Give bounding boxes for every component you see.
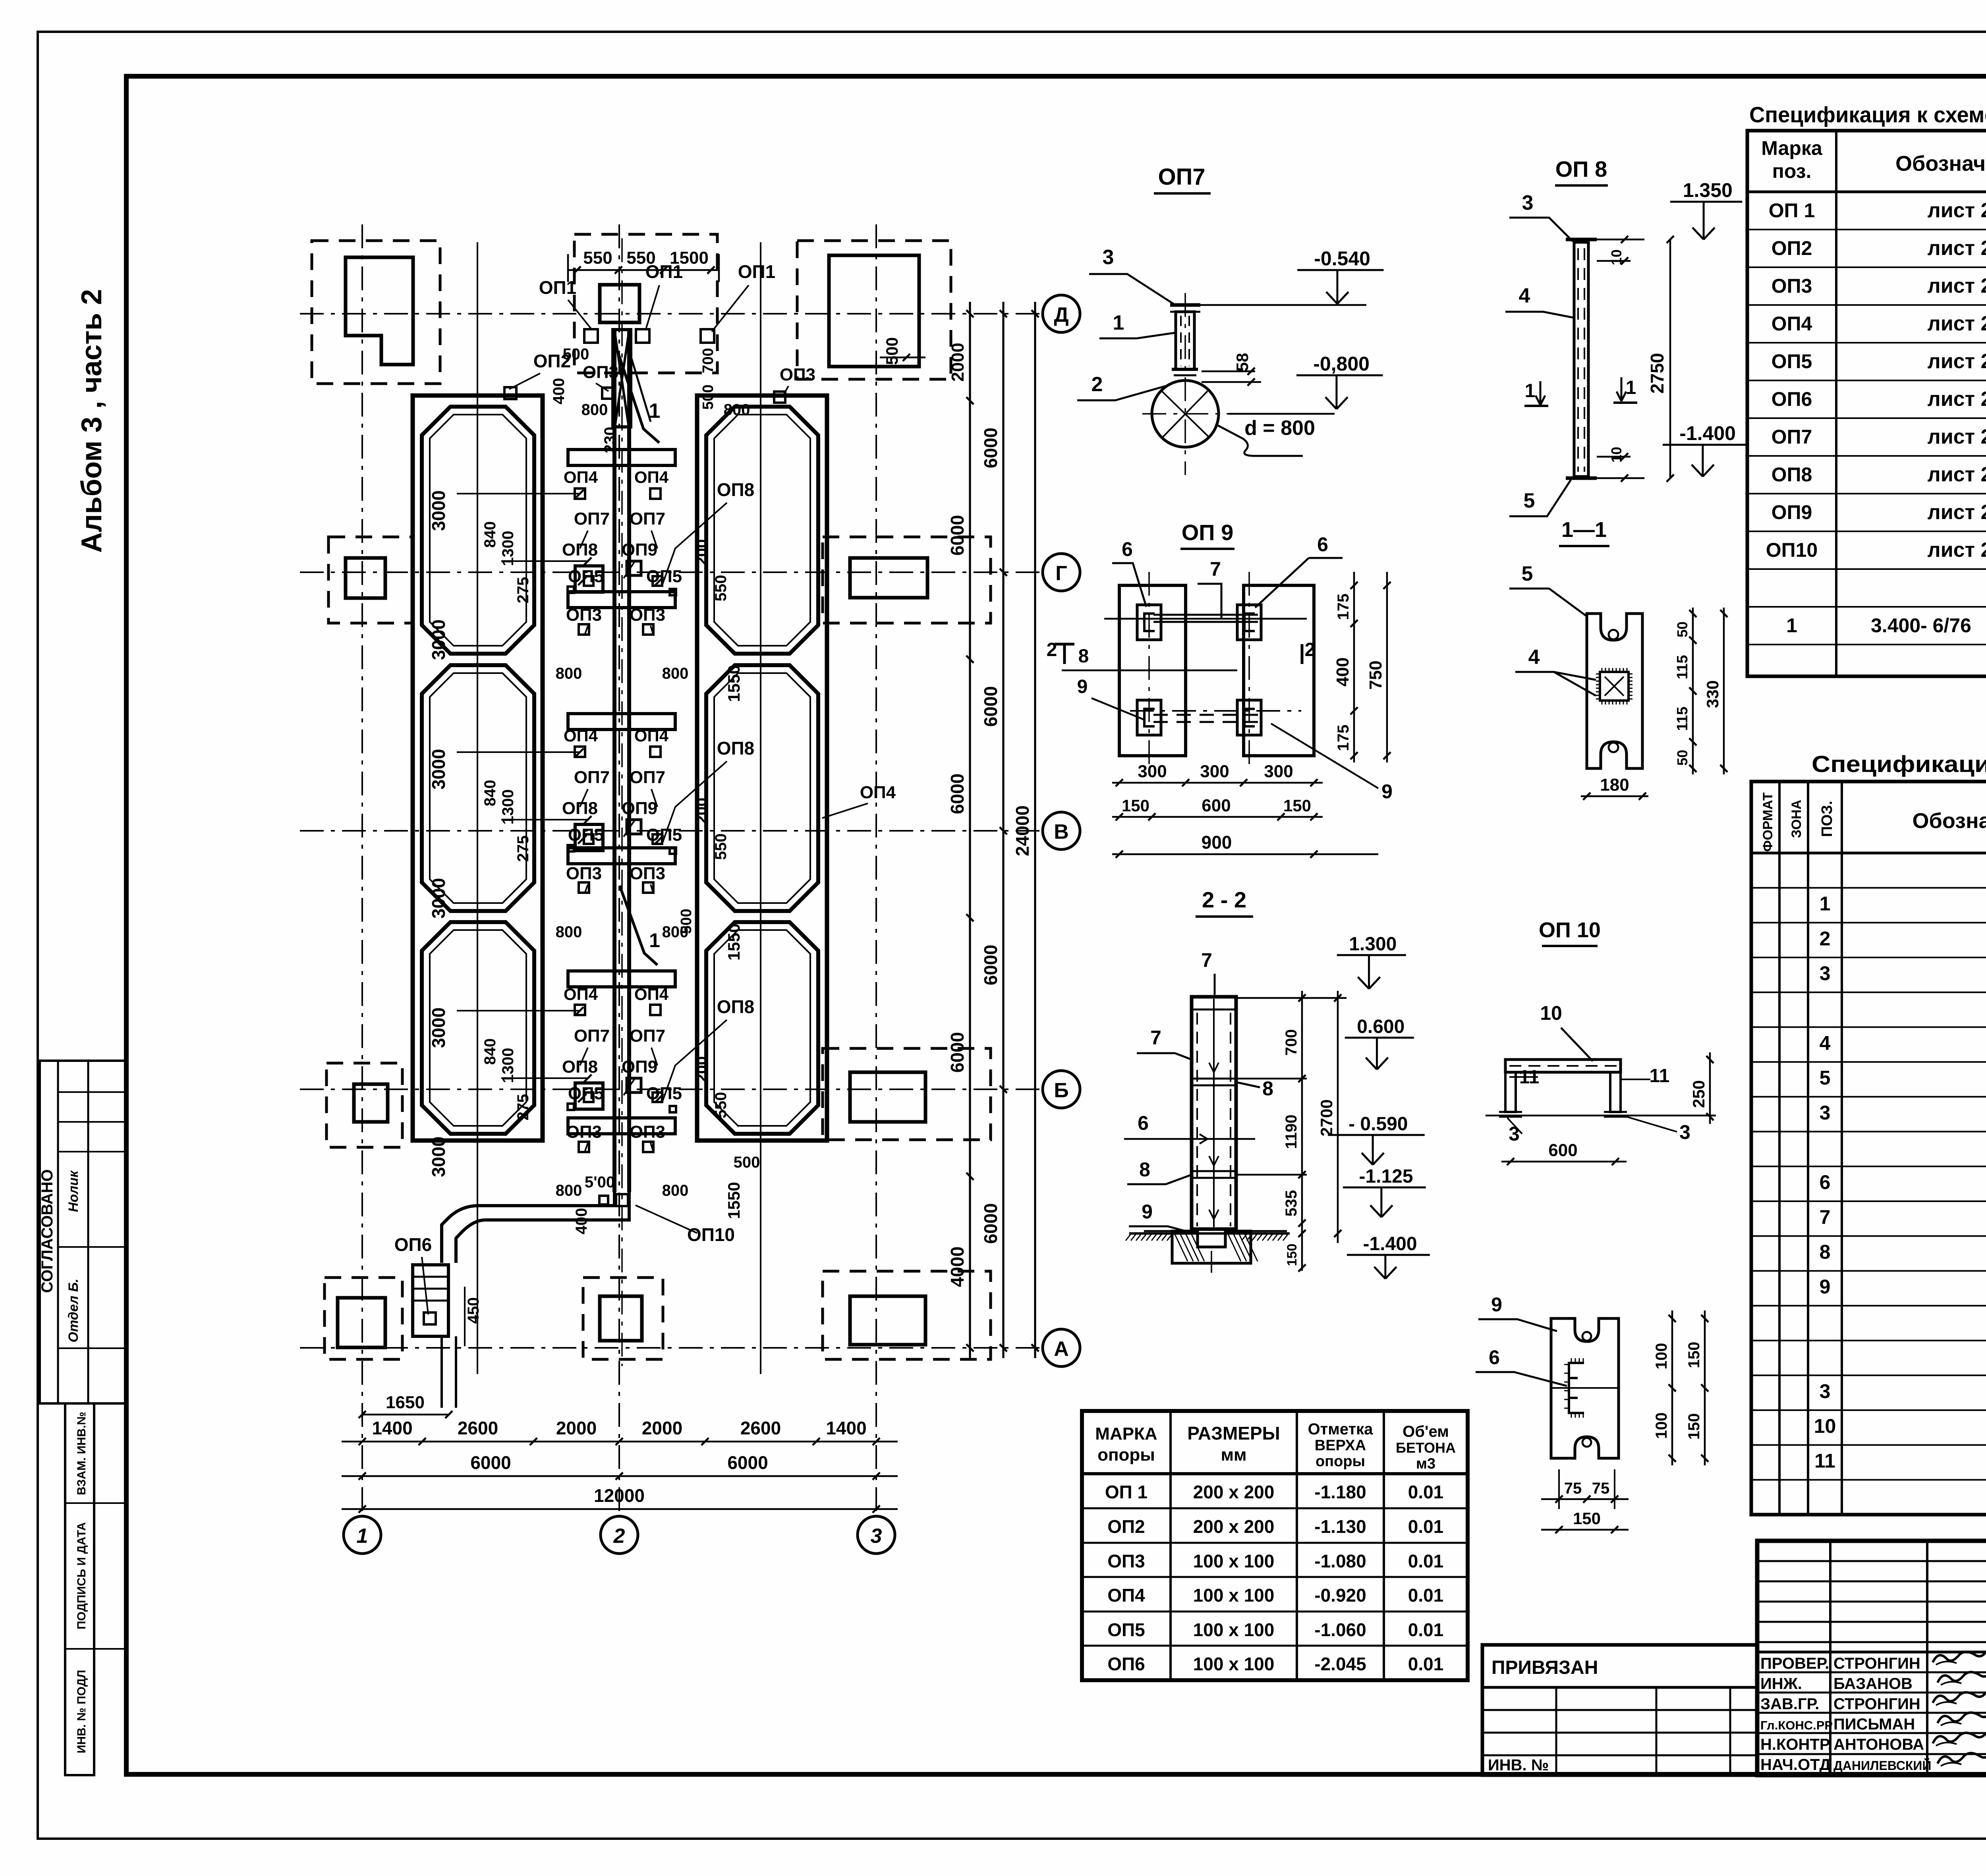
detail MN dims xyxy=(1692,608,1694,774)
footing boxes row G xyxy=(328,537,413,623)
svg-text:100 х 100: 100 х 100 xyxy=(1193,1585,1275,1606)
svg-text:d = 800: d = 800 xyxy=(1244,417,1315,440)
svg-text:ОП8: ОП8 xyxy=(562,799,598,818)
svg-text:3000: 3000 xyxy=(428,490,449,531)
detail bottom plate dims xyxy=(1671,1310,1673,1465)
detail bottom plate 9-6 xyxy=(1551,1318,1619,1458)
svg-text:ПРОВЕР.: ПРОВЕР. xyxy=(1760,1655,1829,1672)
svg-text:840: 840 xyxy=(481,780,499,807)
svg-text:6000: 6000 xyxy=(947,1032,968,1073)
channel top brace xyxy=(613,330,631,427)
svg-text:8: 8 xyxy=(1262,1077,1273,1100)
svg-text:ОП4: ОП4 xyxy=(1772,313,1812,335)
svg-text:СОГЛАСОВАНО: СОГЛАСОВАНО xyxy=(39,1169,56,1293)
dim 1650 xyxy=(362,1414,449,1416)
svg-text:840: 840 xyxy=(481,521,499,548)
svg-text:275: 275 xyxy=(514,836,532,862)
svg-text:2000: 2000 xyxy=(556,1418,597,1438)
svg-text:550: 550 xyxy=(712,575,730,602)
svg-text:лист 29: лист 29 xyxy=(1928,350,1986,373)
support marks table xyxy=(1082,1411,1468,1680)
svg-text:1: 1 xyxy=(357,1525,368,1548)
tank left xyxy=(422,665,534,911)
svg-text:-0.540: -0.540 xyxy=(1314,247,1370,270)
svg-text:75: 75 xyxy=(1592,1480,1610,1497)
svg-text:1550: 1550 xyxy=(724,923,743,960)
svg-text:6000: 6000 xyxy=(947,515,968,556)
svg-text:700: 700 xyxy=(1283,1029,1300,1056)
svg-text:СТРОНГИН: СТРОНГИН xyxy=(1833,1695,1920,1713)
svg-text:600: 600 xyxy=(1202,796,1231,815)
svg-text:50: 50 xyxy=(1674,621,1690,637)
svg-text:5: 5 xyxy=(1522,562,1533,585)
detail OP10 dims xyxy=(1709,1052,1711,1124)
svg-text:ОП2: ОП2 xyxy=(1772,237,1812,259)
svg-text:6000: 6000 xyxy=(980,945,1001,985)
svg-text:3000: 3000 xyxy=(428,620,449,660)
svg-text:0.01: 0.01 xyxy=(1408,1551,1444,1571)
svg-text:200 х 200: 200 х 200 xyxy=(1193,1516,1275,1537)
svg-text:8: 8 xyxy=(1139,1158,1150,1181)
svg-text:1: 1 xyxy=(1525,380,1536,401)
svg-text:Гл.КОНС.РР: Гл.КОНС.РР xyxy=(1760,1718,1833,1732)
svg-text:лист 29: лист 29 xyxy=(1928,312,1986,335)
svg-text:ВЕРХА: ВЕРХА xyxy=(1315,1437,1366,1454)
tank left xyxy=(422,922,534,1134)
op10 marker xyxy=(616,1194,628,1206)
right basin outer wall xyxy=(697,396,827,1141)
svg-text:ОП3: ОП3 xyxy=(630,605,665,625)
svg-text:500: 500 xyxy=(563,345,589,363)
svg-text:2750: 2750 xyxy=(1647,353,1667,394)
svg-text:750: 750 xyxy=(1366,660,1385,689)
tank block centerlines xyxy=(477,242,478,1374)
svg-text:275: 275 xyxy=(514,1094,532,1121)
svg-text:9: 9 xyxy=(1142,1200,1153,1223)
svg-text:Спецификация к схеме располож: Спецификация к схеме расположения канало… xyxy=(1749,102,1986,127)
svg-text:2600: 2600 xyxy=(458,1418,498,1438)
central channel walls xyxy=(612,329,616,1192)
svg-text:7: 7 xyxy=(1210,558,1221,580)
svg-text:10: 10 xyxy=(1814,1415,1836,1437)
svg-text:24000: 24000 xyxy=(1012,805,1033,856)
svg-text:ОП3: ОП3 xyxy=(780,365,815,384)
svg-text:6: 6 xyxy=(1138,1112,1149,1134)
svg-text:3: 3 xyxy=(1679,1121,1690,1143)
svg-text:1: 1 xyxy=(1786,614,1797,637)
svg-text:700: 700 xyxy=(700,348,717,373)
svg-text:0.01: 0.01 xyxy=(1408,1516,1444,1537)
svg-text:250: 250 xyxy=(1689,1080,1708,1108)
svg-text:800: 800 xyxy=(556,1182,582,1199)
plan bottom dimension chain 1 xyxy=(342,1441,898,1443)
plan bottom dimension chain 3 xyxy=(342,1508,898,1510)
svg-text:ОП1: ОП1 xyxy=(539,277,576,298)
svg-text:ЗАВ.ГР.: ЗАВ.ГР. xyxy=(1760,1695,1819,1713)
detail MN plate weld square xyxy=(1600,672,1629,701)
section 2-2 internal bars xyxy=(1193,1078,1235,1080)
column top-right xyxy=(829,255,919,367)
channel cross flanges xyxy=(568,450,675,465)
axis grid vertical lines xyxy=(361,224,363,1515)
svg-text:150: 150 xyxy=(1573,1509,1601,1528)
svg-text:7: 7 xyxy=(1820,1206,1831,1228)
svg-text:400: 400 xyxy=(573,1208,590,1235)
pipe run to OP6 xyxy=(442,1192,614,1263)
svg-text:1550: 1550 xyxy=(724,665,743,702)
svg-text:лист 29: лист 29 xyxy=(1928,199,1986,222)
svg-text:-1.400: -1.400 xyxy=(1363,1233,1417,1255)
svg-text:6000: 6000 xyxy=(470,1452,511,1473)
svg-text:ОП9: ОП9 xyxy=(622,540,657,560)
svg-text:500: 500 xyxy=(734,1154,760,1171)
svg-text:ОП3: ОП3 xyxy=(566,864,602,883)
svg-text:А: А xyxy=(1054,1338,1069,1361)
svg-text:4: 4 xyxy=(1820,1032,1831,1054)
svg-text:АНТОНОВА: АНТОНОВА xyxy=(1833,1736,1924,1753)
svg-text:РАЗМЕРЫ: РАЗМЕРЫ xyxy=(1187,1423,1280,1444)
svg-text:поз.: поз. xyxy=(1772,160,1812,182)
svg-text:4: 4 xyxy=(1528,646,1540,669)
svg-text:3: 3 xyxy=(1820,1380,1831,1402)
svg-text:- 0.590: - 0.590 xyxy=(1348,1114,1408,1135)
svg-text:3000: 3000 xyxy=(428,749,449,789)
svg-text:9: 9 xyxy=(1820,1276,1831,1298)
svg-text:лист 29: лист 29 xyxy=(1928,538,1986,562)
svg-text:ОП5: ОП5 xyxy=(646,567,682,586)
svg-text:6000: 6000 xyxy=(980,428,1001,468)
cross ticks xyxy=(578,577,586,585)
detail OP8 dim 10 top xyxy=(1597,239,1644,241)
svg-text:ОП7: ОП7 xyxy=(630,509,665,529)
svg-text:-1.125: -1.125 xyxy=(1359,1166,1413,1187)
svg-text:100 х 100: 100 х 100 xyxy=(1193,1619,1275,1640)
svg-text:9: 9 xyxy=(1491,1293,1502,1316)
section 2-2 foundation xyxy=(1172,1231,1251,1263)
svg-text:800: 800 xyxy=(556,665,582,682)
svg-text:ОП5: ОП5 xyxy=(1107,1619,1145,1640)
svg-text:1: 1 xyxy=(649,929,660,952)
svg-text:ОП3: ОП3 xyxy=(630,1122,665,1142)
svg-text:6000: 6000 xyxy=(980,686,1001,727)
svg-text:3: 3 xyxy=(1820,962,1831,984)
svg-text:Д: Д xyxy=(1054,303,1068,326)
svg-text:7: 7 xyxy=(1150,1027,1161,1049)
svg-text:2: 2 xyxy=(1305,639,1316,660)
svg-text:1: 1 xyxy=(1626,377,1636,398)
svg-text:800: 800 xyxy=(582,401,608,419)
svg-text:550: 550 xyxy=(712,834,730,860)
svg-text:840: 840 xyxy=(481,1038,499,1065)
svg-text:ОП4: ОП4 xyxy=(564,985,598,1004)
svg-text:1.350: 1.350 xyxy=(1683,179,1733,201)
svg-text:ОП10: ОП10 xyxy=(1766,539,1818,561)
svg-text:2600: 2600 xyxy=(740,1418,781,1438)
svg-text:ОП 1: ОП 1 xyxy=(1769,199,1815,222)
tank left xyxy=(422,407,534,654)
svg-text:58: 58 xyxy=(1233,353,1252,372)
svg-text:10: 10 xyxy=(1540,1002,1562,1024)
svg-text:2: 2 xyxy=(1820,927,1831,950)
svg-text:300: 300 xyxy=(1264,762,1293,781)
svg-text:1400: 1400 xyxy=(372,1418,412,1438)
svg-text:лист 29: лист 29 xyxy=(1928,501,1986,524)
svg-text:Обозначение: Обозначение xyxy=(1912,809,1986,833)
svg-text:-0.920: -0.920 xyxy=(1314,1585,1366,1606)
svg-text:БЕТОНА: БЕТОНА xyxy=(1396,1440,1456,1456)
svg-text:ФОРМАТ: ФОРМАТ xyxy=(1760,792,1775,852)
svg-text:2: 2 xyxy=(613,1525,625,1548)
support assemblies at axes xyxy=(575,566,603,592)
svg-text:800: 800 xyxy=(662,665,689,682)
svg-text:-1.130: -1.130 xyxy=(1314,1516,1366,1537)
section 2-2 ground xyxy=(1129,1232,1290,1235)
svg-text:2: 2 xyxy=(1092,373,1103,396)
tank right xyxy=(706,407,818,654)
detail OP8 elevation 1.350 xyxy=(1670,201,1742,203)
svg-text:лист 29: лист 29 xyxy=(1928,274,1986,297)
column footing dashed boxes top row xyxy=(312,241,440,384)
svg-text:6000: 6000 xyxy=(947,774,968,814)
svg-text:Марка: Марка xyxy=(1761,137,1823,159)
svg-text:ОП5: ОП5 xyxy=(646,825,682,845)
svg-text:3.400- 6/76: 3.400- 6/76 xyxy=(1871,614,1971,637)
svg-text:550: 550 xyxy=(583,248,612,268)
svg-text:опоры: опоры xyxy=(1097,1445,1155,1465)
svg-text:ОП8: ОП8 xyxy=(717,996,754,1017)
detail OP7 elevation -0.800 xyxy=(1296,374,1383,376)
svg-text:Об'ем: Об'ем xyxy=(1403,1423,1449,1440)
svg-text:ИНЖ.: ИНЖ. xyxy=(1760,1675,1802,1693)
svg-text:150: 150 xyxy=(1122,796,1149,815)
svg-text:ОП5: ОП5 xyxy=(1772,350,1812,372)
svg-text:ОП4: ОП4 xyxy=(564,468,598,486)
svg-text:ОП10: ОП10 xyxy=(687,1224,735,1245)
svg-text:175: 175 xyxy=(1335,725,1352,751)
svg-text:400: 400 xyxy=(550,378,568,405)
svg-text:3: 3 xyxy=(1820,1102,1831,1124)
svg-text:ПРИВЯЗАН: ПРИВЯЗАН xyxy=(1491,1657,1598,1678)
svg-text:4000: 4000 xyxy=(947,1247,968,1287)
svg-text:1: 1 xyxy=(1820,893,1831,915)
svg-text:ИНВ. №: ИНВ. № xyxy=(1488,1756,1549,1774)
op2 marker xyxy=(504,387,516,399)
svg-text:ОП4: ОП4 xyxy=(860,783,896,802)
svg-text:0.01: 0.01 xyxy=(1408,1619,1444,1640)
svg-text:500: 500 xyxy=(883,337,901,365)
svg-text:Отметка: Отметка xyxy=(1308,1421,1374,1438)
axis circles bottom xyxy=(344,1516,381,1554)
svg-text:ОП6: ОП6 xyxy=(1772,388,1812,410)
svg-text:ОП4: ОП4 xyxy=(634,726,669,745)
svg-text:-1.060: -1.060 xyxy=(1314,1619,1366,1640)
svg-text:900: 900 xyxy=(1202,832,1232,853)
svg-text:лист 29: лист 29 xyxy=(1928,237,1986,260)
svg-text:ОП3: ОП3 xyxy=(566,1122,602,1142)
svg-text:150: 150 xyxy=(1685,1342,1703,1368)
svg-text:535: 535 xyxy=(1283,1190,1300,1217)
svg-text:-0,800: -0,800 xyxy=(1313,353,1370,375)
svg-text:50: 50 xyxy=(1674,750,1690,766)
svg-text:1550: 1550 xyxy=(724,1182,743,1219)
svg-text:лист 29: лист 29 xyxy=(1928,425,1986,448)
svg-text:лист 29: лист 29 xyxy=(1928,463,1986,486)
op5 markers xyxy=(584,576,593,586)
svg-text:НАЧ.ОТД: НАЧ.ОТД xyxy=(1760,1756,1831,1774)
svg-text:Г: Г xyxy=(1055,562,1067,585)
svg-text:1—1: 1—1 xyxy=(1561,518,1607,542)
svg-text:ОП3: ОП3 xyxy=(583,363,618,382)
detail OP9 dims right xyxy=(1353,572,1355,762)
svg-text:2 - 2: 2 - 2 xyxy=(1202,887,1246,912)
detail OP9 plate centerlines xyxy=(1148,572,1150,766)
svg-text:200: 200 xyxy=(693,539,711,566)
svg-text:0.01: 0.01 xyxy=(1408,1482,1444,1502)
plan top dims 550 550 1500 xyxy=(568,269,719,271)
svg-text:ОП3: ОП3 xyxy=(566,605,602,625)
svg-text:5: 5 xyxy=(1524,489,1535,512)
svg-text:ИНВ. № ПОДЛ: ИНВ. № ПОДЛ xyxy=(75,1670,88,1753)
svg-text:100 х 100: 100 х 100 xyxy=(1193,1654,1275,1674)
svg-text:5'00: 5'00 xyxy=(585,1173,615,1191)
detail OP8 dim 10 bottom xyxy=(1597,477,1644,479)
svg-text:ОП 8: ОП 8 xyxy=(1555,156,1607,181)
privyazan table xyxy=(1482,1645,1757,1775)
svg-text:В: В xyxy=(1054,820,1069,843)
svg-text:ОП2: ОП2 xyxy=(1107,1516,1145,1537)
plan right dimension chain outer xyxy=(1034,302,1036,1358)
svg-text:ОП8: ОП8 xyxy=(562,540,598,560)
svg-text:200 х 200: 200 х 200 xyxy=(1193,1482,1275,1502)
column top-left stepped xyxy=(346,257,413,365)
svg-text:ОП9: ОП9 xyxy=(622,1057,657,1077)
svg-text:175: 175 xyxy=(1335,594,1352,620)
svg-text:ЗОНА: ЗОНА xyxy=(1789,800,1804,838)
svg-text:115: 115 xyxy=(1674,655,1691,679)
svg-text:ОП4: ОП4 xyxy=(634,468,669,486)
spec table 1 grid xyxy=(1747,131,1986,676)
svg-text:200: 200 xyxy=(693,798,711,824)
spec table 2 grid xyxy=(1751,782,1986,1515)
svg-text:9: 9 xyxy=(1381,780,1393,803)
svg-text:300: 300 xyxy=(1200,762,1229,781)
detail MN plate 5 xyxy=(1587,614,1642,768)
svg-text:11: 11 xyxy=(1814,1450,1835,1472)
dim 500 near op1 right xyxy=(880,357,925,359)
svg-text:6: 6 xyxy=(1820,1171,1831,1193)
svg-text:3000: 3000 xyxy=(428,1137,449,1177)
detail OP10 beam xyxy=(1505,1060,1621,1072)
svg-text:10: 10 xyxy=(1608,447,1625,463)
svg-text:ОП7: ОП7 xyxy=(630,1026,665,1046)
cross ticks xyxy=(578,1094,586,1102)
svg-text:330: 330 xyxy=(1703,680,1722,708)
svg-text:Б: Б xyxy=(1054,1079,1068,1102)
svg-text:опоры: опоры xyxy=(1316,1453,1365,1470)
svg-text:2000: 2000 xyxy=(948,343,968,382)
svg-text:ОП5: ОП5 xyxy=(646,1084,682,1103)
svg-text:800: 800 xyxy=(724,401,750,419)
section 2-2 dims xyxy=(1301,991,1303,1271)
svg-text:3: 3 xyxy=(1522,191,1534,214)
svg-text:1400: 1400 xyxy=(826,1418,866,1438)
svg-text:3: 3 xyxy=(871,1525,882,1548)
svg-text:ОП 9: ОП 9 xyxy=(1182,520,1234,545)
detail OP7 elevation -0.540 xyxy=(1297,269,1384,271)
detail OP8 dim 2750 xyxy=(1669,239,1671,478)
svg-text:Отдел Б.: Отдел Б. xyxy=(66,1279,81,1343)
svg-text:ОП3: ОП3 xyxy=(1107,1551,1145,1571)
svg-text:Обозначение: Обозначение xyxy=(1895,152,1986,176)
svg-text:-1.400: -1.400 xyxy=(1679,422,1736,444)
svg-text:Альбом 3 , часть 2: Альбом 3 , часть 2 xyxy=(76,289,108,553)
detail bottom plate c profile xyxy=(1569,1363,1584,1413)
svg-text:75: 75 xyxy=(1564,1480,1582,1497)
svg-text:150: 150 xyxy=(1685,1413,1703,1440)
svg-text:БАЗАНОВ: БАЗАНОВ xyxy=(1833,1675,1913,1693)
svg-text:Н.КОНТР.: Н.КОНТР. xyxy=(1760,1736,1832,1753)
svg-text:800: 800 xyxy=(662,1182,689,1199)
detail OP7 column xyxy=(1176,312,1194,369)
svg-text:м3: м3 xyxy=(1416,1455,1435,1472)
svg-text:Спецификация к опорам ОП7;: Спецификация к опорам ОП7; ОП8; ОП9; ОП1… xyxy=(1812,751,1986,777)
left basin outer wall xyxy=(413,396,543,1141)
svg-text:2: 2 xyxy=(1047,639,1057,660)
svg-text:2000: 2000 xyxy=(642,1418,682,1438)
footing boxes row B xyxy=(326,1063,402,1147)
svg-text:ОП3: ОП3 xyxy=(630,864,665,883)
svg-text:6000: 6000 xyxy=(980,1203,1001,1244)
svg-text:ОП8: ОП8 xyxy=(717,738,754,759)
svg-text:ДАНИЛЕВСКИЙ: ДАНИЛЕВСКИЙ xyxy=(1833,1758,1931,1773)
axis grid horizontal lines xyxy=(300,313,1045,315)
svg-text:275: 275 xyxy=(514,577,532,604)
svg-text:10: 10 xyxy=(1608,249,1625,265)
svg-text:СТРОНГИН: СТРОНГИН xyxy=(1833,1655,1920,1672)
title block left grid xyxy=(1757,1560,1986,1562)
svg-text:ОП8: ОП8 xyxy=(1772,463,1812,486)
svg-text:ВЗАМ. ИНВ.№: ВЗАМ. ИНВ.№ xyxy=(75,1412,88,1495)
svg-text:ОП 10: ОП 10 xyxy=(1539,918,1601,942)
svg-text:2700: 2700 xyxy=(1317,1099,1336,1136)
svg-text:мм: мм xyxy=(1221,1445,1246,1465)
detail OP9 c-channels xyxy=(1137,605,1161,640)
detail OP8 column xyxy=(1574,242,1588,477)
central channel centerline xyxy=(621,238,623,1366)
cross ticks xyxy=(578,835,586,843)
svg-text:6: 6 xyxy=(1122,538,1133,560)
svg-text:230: 230 xyxy=(601,427,619,454)
margin block: soglasovano table xyxy=(40,1061,126,1403)
svg-text:1650: 1650 xyxy=(386,1393,425,1412)
svg-text:3000: 3000 xyxy=(428,878,449,919)
svg-text:МАРКА: МАРКА xyxy=(1095,1424,1157,1444)
svg-text:ОП4: ОП4 xyxy=(634,985,669,1004)
svg-text:ПОЗ.: ПОЗ. xyxy=(1819,801,1835,837)
svg-text:0.01: 0.01 xyxy=(1408,1585,1444,1606)
svg-text:600: 600 xyxy=(1548,1141,1577,1160)
various op markers mid xyxy=(575,488,585,499)
svg-text:ОП9: ОП9 xyxy=(622,799,657,818)
svg-text:100: 100 xyxy=(1653,1343,1670,1370)
detail OP9 rails xyxy=(1104,618,1307,620)
svg-text:200: 200 xyxy=(693,1056,711,1083)
detail OP9 dims bottom xyxy=(1112,782,1323,784)
svg-text:ОП 1: ОП 1 xyxy=(1105,1482,1148,1502)
svg-text:450: 450 xyxy=(465,1297,482,1324)
svg-text:ОП4: ОП4 xyxy=(1107,1585,1145,1606)
section 2-2 elevations xyxy=(1337,954,1406,956)
